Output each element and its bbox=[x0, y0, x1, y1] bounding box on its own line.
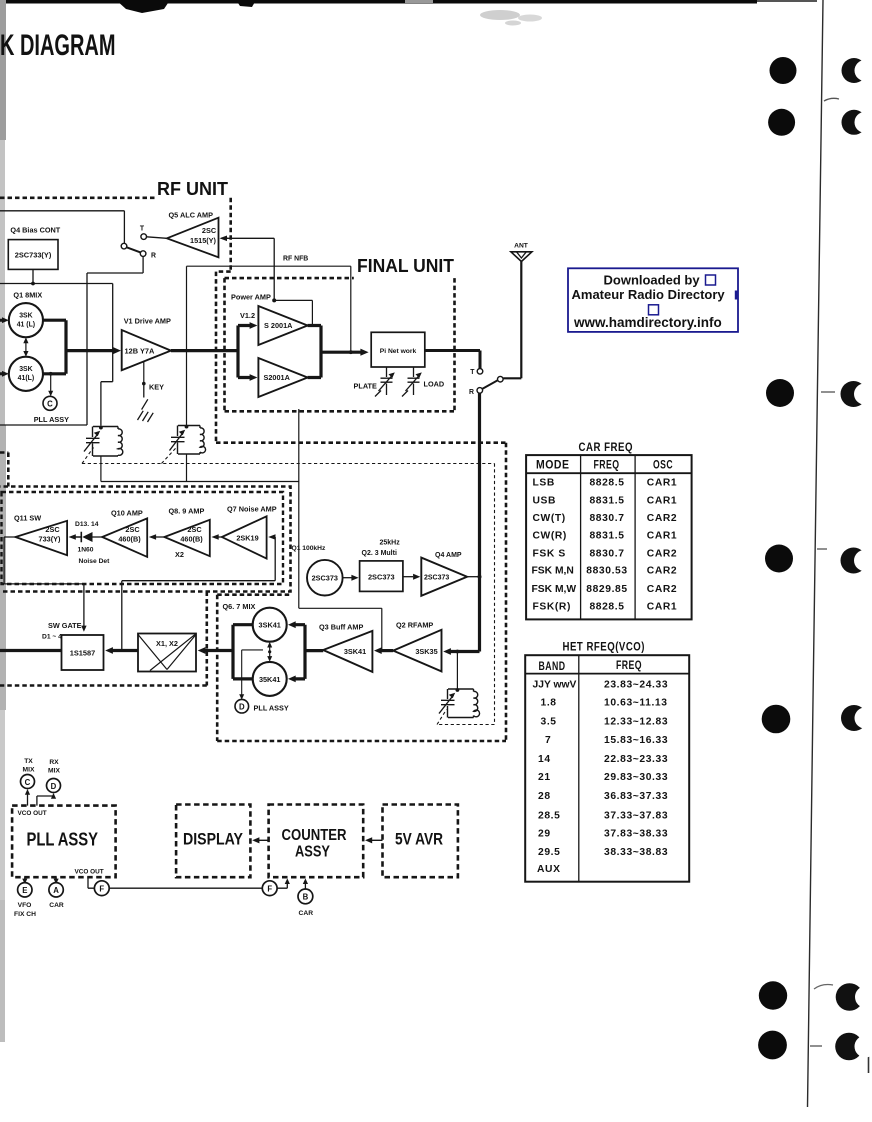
svg-text:3.5: 3.5 bbox=[541, 717, 557, 728]
svg-text:8831.5: 8831.5 bbox=[589, 496, 624, 507]
svg-text:3SK41: 3SK41 bbox=[344, 647, 366, 656]
svg-text:Q6. 7 MIX: Q6. 7 MIX bbox=[223, 602, 256, 611]
svg-text:733(Y): 733(Y) bbox=[39, 534, 61, 543]
svg-text:1515(Y): 1515(Y) bbox=[190, 236, 217, 245]
svg-text:RX: RX bbox=[49, 759, 59, 766]
svg-text:MODE: MODE bbox=[536, 458, 570, 472]
svg-text:Pi Net work: Pi Net work bbox=[380, 348, 417, 355]
svg-text:KEY: KEY bbox=[149, 383, 164, 392]
svg-text:JJY wwV: JJY wwV bbox=[533, 679, 577, 690]
svg-text:15.83~16.33: 15.83~16.33 bbox=[604, 735, 668, 746]
svg-text:21: 21 bbox=[538, 772, 551, 783]
svg-text:AUX: AUX bbox=[537, 864, 561, 875]
svg-text:25kHz: 25kHz bbox=[380, 539, 401, 546]
svg-text:COUNTER: COUNTER bbox=[282, 827, 347, 844]
svg-text:CAR1: CAR1 bbox=[647, 496, 677, 507]
svg-text:3SK: 3SK bbox=[19, 313, 32, 320]
svg-text:2SC: 2SC bbox=[187, 525, 202, 534]
svg-text:3SK41: 3SK41 bbox=[259, 621, 281, 630]
svg-text:12.33~12.83: 12.33~12.83 bbox=[604, 717, 668, 728]
svg-text:PLL ASSY: PLL ASSY bbox=[27, 830, 99, 850]
svg-text:1S1587: 1S1587 bbox=[70, 649, 95, 658]
svg-text:FREQ: FREQ bbox=[616, 658, 642, 672]
svg-text:E: E bbox=[22, 886, 27, 895]
svg-text:TX: TX bbox=[24, 758, 33, 765]
svg-text:8830.7: 8830.7 bbox=[589, 513, 624, 524]
svg-text:28: 28 bbox=[538, 791, 551, 802]
svg-text:38.33~38.83: 38.33~38.83 bbox=[604, 847, 668, 858]
svg-text:FREQ: FREQ bbox=[594, 458, 620, 472]
svg-text:CAR2: CAR2 bbox=[647, 566, 677, 577]
svg-text:CAR: CAR bbox=[299, 910, 314, 917]
svg-text:DISPLAY: DISPLAY bbox=[183, 830, 244, 849]
svg-text:460(B): 460(B) bbox=[118, 535, 141, 544]
svg-text:8831.5: 8831.5 bbox=[589, 531, 624, 542]
svg-text:PLATE: PLATE bbox=[354, 381, 378, 390]
svg-text:V1 Drive AMP: V1 Drive AMP bbox=[124, 317, 171, 326]
svg-text:14: 14 bbox=[538, 754, 551, 765]
svg-text:MIX: MIX bbox=[23, 766, 35, 773]
svg-text:Q7 Noise AMP: Q7 Noise AMP bbox=[227, 504, 277, 513]
svg-text:35K41: 35K41 bbox=[259, 675, 281, 684]
svg-text:LOAD: LOAD bbox=[424, 380, 445, 389]
svg-text:PLL ASSY: PLL ASSY bbox=[254, 704, 289, 713]
svg-text:S 2001A: S 2001A bbox=[264, 321, 293, 330]
svg-text:X2: X2 bbox=[175, 550, 184, 559]
svg-text:5V AVR: 5V AVR bbox=[395, 830, 443, 849]
svg-text:CAR: CAR bbox=[49, 902, 64, 909]
svg-text:RF UNIT: RF UNIT bbox=[157, 179, 228, 199]
svg-text:3SK: 3SK bbox=[19, 366, 32, 373]
svg-text:Noise Det: Noise Det bbox=[79, 558, 111, 565]
svg-text:Downloaded by: Downloaded by bbox=[604, 272, 701, 287]
svg-text:www.hamdirectory.info: www.hamdirectory.info bbox=[573, 315, 722, 330]
svg-text:CAR2: CAR2 bbox=[647, 513, 677, 524]
svg-text:2SC373: 2SC373 bbox=[424, 575, 449, 582]
svg-text:D: D bbox=[51, 782, 57, 791]
svg-text:Q4 Bias CONT: Q4 Bias CONT bbox=[10, 226, 60, 235]
svg-text:USB: USB bbox=[533, 496, 557, 507]
svg-text:8829.85: 8829.85 bbox=[586, 584, 627, 595]
svg-text:FSK(R): FSK(R) bbox=[533, 602, 572, 613]
svg-text:CAR1: CAR1 bbox=[647, 531, 677, 542]
svg-text:Q1 8MIX: Q1 8MIX bbox=[13, 290, 42, 299]
svg-text:22.83~23.33: 22.83~23.33 bbox=[604, 754, 668, 765]
svg-text:FSK M,N: FSK M,N bbox=[532, 566, 574, 577]
svg-text:ANT: ANT bbox=[514, 242, 529, 249]
svg-text:HET RFEQ(VCO): HET RFEQ(VCO) bbox=[563, 642, 646, 654]
svg-text:ASSY: ASSY bbox=[295, 844, 331, 861]
svg-text:460(B): 460(B) bbox=[180, 535, 203, 544]
svg-text:FSK S: FSK S bbox=[533, 548, 566, 559]
svg-text:Q1 100kHz: Q1 100kHz bbox=[292, 545, 326, 552]
svg-text:FIX CH: FIX CH bbox=[14, 911, 36, 918]
svg-text:Amateur Radio Directory: Amateur Radio Directory bbox=[572, 287, 726, 302]
svg-text:8830.7: 8830.7 bbox=[589, 548, 624, 559]
svg-text:CAR2: CAR2 bbox=[647, 548, 677, 559]
svg-text:28.5: 28.5 bbox=[538, 810, 560, 821]
svg-text:2SC373: 2SC373 bbox=[368, 573, 395, 582]
svg-text:RF NFB: RF NFB bbox=[283, 256, 308, 263]
svg-text:CAR1: CAR1 bbox=[647, 478, 677, 489]
svg-text:OSC: OSC bbox=[653, 458, 673, 472]
svg-text:CAR2: CAR2 bbox=[647, 584, 677, 595]
svg-text:VCO OUT: VCO OUT bbox=[75, 868, 104, 875]
svg-text:CW(R): CW(R) bbox=[533, 531, 567, 542]
svg-text:BAND: BAND bbox=[539, 659, 566, 673]
svg-text:R: R bbox=[469, 389, 474, 396]
svg-text:B: B bbox=[303, 893, 309, 902]
svg-text:Q10 AMP: Q10 AMP bbox=[111, 508, 143, 517]
svg-text:PLL ASSY: PLL ASSY bbox=[34, 415, 69, 424]
svg-text:Q4 AMP: Q4 AMP bbox=[435, 552, 462, 559]
svg-text:1.8: 1.8 bbox=[541, 698, 557, 709]
svg-text:Power AMP: Power AMP bbox=[231, 293, 271, 302]
svg-text:12B Y7A: 12B Y7A bbox=[125, 347, 156, 356]
svg-text:41(L): 41(L) bbox=[18, 375, 34, 382]
svg-text:X1, X2: X1, X2 bbox=[156, 639, 178, 648]
svg-text:2SC: 2SC bbox=[202, 226, 217, 235]
svg-text:10.63~11.13: 10.63~11.13 bbox=[604, 698, 668, 709]
svg-text:C: C bbox=[47, 399, 53, 408]
svg-text:LSB: LSB bbox=[533, 478, 555, 489]
svg-text:F: F bbox=[267, 884, 272, 893]
svg-text:CK DIAGRAM: CK DIAGRAM bbox=[0, 29, 116, 62]
svg-text:8830.53: 8830.53 bbox=[586, 566, 627, 577]
svg-text:D1 ~ 4: D1 ~ 4 bbox=[42, 634, 62, 641]
svg-text:2SC373: 2SC373 bbox=[312, 574, 338, 583]
svg-text:SW GATE: SW GATE bbox=[48, 621, 82, 630]
svg-text:2SC: 2SC bbox=[125, 525, 140, 534]
svg-text:41 (L): 41 (L) bbox=[17, 322, 35, 329]
svg-text:Q2 RFAMP: Q2 RFAMP bbox=[396, 621, 433, 630]
svg-text:Q11 SW: Q11 SW bbox=[14, 513, 41, 522]
svg-text:29.83~30.33: 29.83~30.33 bbox=[604, 772, 668, 783]
svg-text:Q3 Buff AMP: Q3 Buff AMP bbox=[319, 623, 363, 632]
svg-text:R: R bbox=[151, 253, 156, 260]
svg-text:37.33~37.83: 37.33~37.83 bbox=[604, 810, 668, 821]
svg-text:2SK19: 2SK19 bbox=[236, 534, 258, 543]
svg-text:FINAL UNIT: FINAL UNIT bbox=[357, 256, 454, 276]
svg-text:F: F bbox=[99, 884, 104, 893]
svg-text:V1.2: V1.2 bbox=[240, 311, 255, 320]
svg-text:2SC: 2SC bbox=[45, 525, 60, 534]
svg-text:D: D bbox=[239, 702, 245, 711]
svg-text:8828.5: 8828.5 bbox=[589, 478, 624, 489]
svg-text:3SK35: 3SK35 bbox=[415, 647, 437, 656]
svg-text:Q2. 3 Multi: Q2. 3 Multi bbox=[362, 550, 397, 557]
svg-text:C: C bbox=[25, 778, 31, 787]
svg-text:CW(T): CW(T) bbox=[533, 513, 566, 524]
svg-text:CAR1: CAR1 bbox=[647, 602, 677, 613]
svg-text:7: 7 bbox=[545, 735, 551, 746]
svg-text:MIX: MIX bbox=[48, 767, 60, 774]
svg-text:8828.5: 8828.5 bbox=[589, 602, 624, 613]
svg-text:36.83~37.33: 36.83~37.33 bbox=[604, 791, 668, 802]
svg-text:1N60: 1N60 bbox=[78, 547, 94, 554]
svg-text:29: 29 bbox=[538, 828, 551, 839]
svg-text:29.5: 29.5 bbox=[538, 847, 560, 858]
svg-text:S2001A: S2001A bbox=[264, 373, 291, 382]
svg-text:23.83~24.33: 23.83~24.33 bbox=[604, 679, 668, 690]
svg-text:2SC733(Y): 2SC733(Y) bbox=[15, 251, 52, 260]
svg-text:D13. 14: D13. 14 bbox=[75, 521, 99, 528]
svg-text:FSK M,W: FSK M,W bbox=[532, 584, 577, 595]
svg-text:A: A bbox=[53, 886, 59, 895]
svg-text:37.83~38.33: 37.83~38.33 bbox=[604, 828, 668, 839]
svg-text:CAR FREQ: CAR FREQ bbox=[579, 442, 634, 454]
svg-text:VFO: VFO bbox=[18, 902, 32, 909]
svg-text:Q8. 9 AMP: Q8. 9 AMP bbox=[169, 507, 205, 516]
svg-text:Q5 ALC AMP: Q5 ALC AMP bbox=[169, 211, 214, 220]
svg-text:VCO OUT: VCO OUT bbox=[18, 810, 47, 817]
